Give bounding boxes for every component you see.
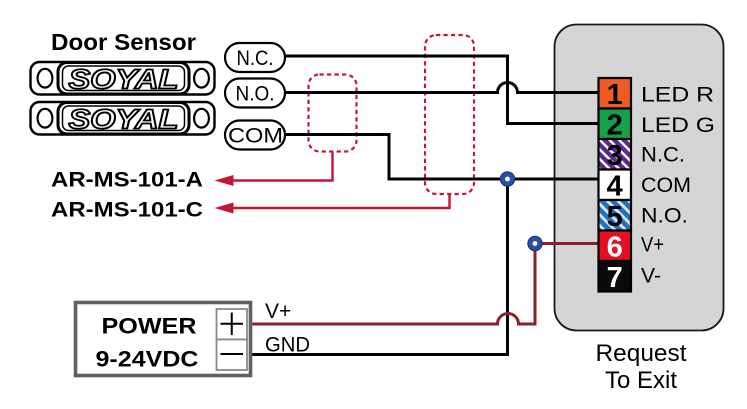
wire: N.O. to pin 1 (LED R), hop over N.C. wire <box>285 83 600 93</box>
svg-text:Request: Request <box>596 340 687 367</box>
power supply terminal + <box>217 309 248 340</box>
svg-text:LED G: LED G <box>641 113 715 137</box>
svg-text:Door Sensor: Door Sensor <box>51 29 196 55</box>
terminal pin 3 (purple striped, N.C.) <box>599 139 632 172</box>
svg-text:COM: COM <box>641 173 691 197</box>
junction node on COM wire <box>500 172 514 186</box>
wire: COM to pin 4 <box>285 135 600 180</box>
svg-text:POWER: POWER <box>102 314 197 339</box>
junction node on V+ wire <box>528 236 542 250</box>
terminal pin 5 (blue striped, N.O.) <box>599 200 632 233</box>
leader arrow to AR-MS-101-C <box>215 194 450 214</box>
terminal pin 2 (green, LED G) <box>599 109 632 142</box>
svg-text:3: 3 <box>607 140 623 172</box>
cable callout dashed box (2-wire, AR-MS-101-A) <box>309 75 357 152</box>
svg-text:SOYAL: SOYAL <box>69 64 179 95</box>
wire: COM junction down to power GND (-) <box>252 179 508 355</box>
terminal label oval N.C. <box>225 43 285 72</box>
svg-text:LED R: LED R <box>641 83 714 107</box>
door sensor magnet (bottom SOYAL bar) <box>31 102 215 135</box>
svg-text:V+: V+ <box>641 233 664 257</box>
svg-text:V-: V- <box>641 264 661 288</box>
svg-text:6: 6 <box>607 232 623 264</box>
svg-text:4: 4 <box>607 171 623 203</box>
svg-text:9-24VDC: 9-24VDC <box>96 347 199 372</box>
power supply PS1 box <box>76 303 251 376</box>
svg-text:V+: V+ <box>265 300 291 323</box>
wire: N.C. to pin 2 (LED G) <box>285 56 600 124</box>
terminal pin 1 (orange, LED R) <box>599 78 632 111</box>
terminal pin 7 (black, V-) <box>599 261 632 294</box>
terminal label oval N.O. <box>225 79 285 108</box>
svg-text:SOYAL: SOYAL <box>69 104 179 135</box>
svg-text:7: 7 <box>607 262 623 294</box>
svg-text:N.O.: N.O. <box>236 83 275 106</box>
svg-text:2: 2 <box>607 110 623 142</box>
svg-text:AR-MS-101-A: AR-MS-101-A <box>51 167 203 191</box>
reader panel (Request To Exit device) <box>555 25 724 331</box>
svg-text:5: 5 <box>607 201 623 233</box>
power supply terminal - <box>217 340 248 371</box>
terminal label oval COM <box>225 121 285 150</box>
leader arrow to AR-MS-101-A <box>215 152 333 186</box>
svg-text:AR-MS-101-C: AR-MS-101-C <box>51 198 203 222</box>
svg-text:GND: GND <box>265 334 310 357</box>
svg-text:COM: COM <box>228 125 283 148</box>
terminal pin 4 (white, COM) <box>599 170 632 203</box>
wire: V+ from power (+) to pin 6, hop over GND wire <box>252 244 600 325</box>
svg-text:N.O.: N.O. <box>641 204 688 228</box>
terminal pin 6 (red, V+) <box>599 231 632 264</box>
cable callout dashed box (3-wire, AR-MS-101-C) <box>425 35 474 194</box>
door sensor S1 body (top SOYAL bar) <box>31 62 215 95</box>
svg-text:1: 1 <box>607 79 623 111</box>
svg-text:To Exit: To Exit <box>605 367 677 394</box>
svg-text:N.C.: N.C. <box>237 47 274 70</box>
svg-text:N.C.: N.C. <box>641 143 685 167</box>
